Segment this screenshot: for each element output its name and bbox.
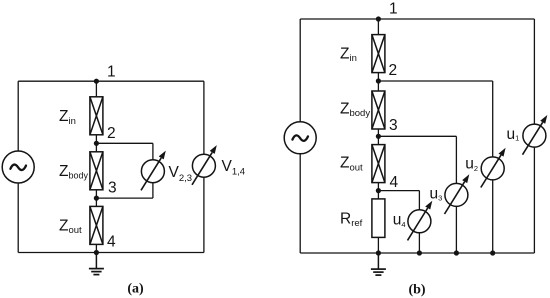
wire: node4 to u4 branch (b): [378, 190, 419, 192]
wire: node3 to u3 branch (b): [378, 135, 456, 137]
svg-text:u1: u1: [507, 126, 520, 143]
svg-text:1: 1: [389, 0, 398, 17]
svg-text:Zin: Zin: [340, 45, 357, 64]
wire: u2 branch lower vertical: [492, 180, 494, 253]
svg-text:u2: u2: [465, 156, 478, 173]
wire: node2 to V2,3 branch: [96, 142, 152, 144]
impedance Zbody (b): [372, 91, 385, 129]
junction dot: u3 branch on bottom wire: [454, 250, 459, 255]
svg-text:Zin: Zin: [59, 108, 76, 127]
wire: circuit (a) left wire lower segment: [17, 183, 19, 253]
voltmeter u1: [523, 115, 548, 155]
svg-text:Zout: Zout: [59, 217, 82, 236]
wire: circuit (b) top wire node1: [300, 18, 534, 20]
voltmeter V1,4: [192, 145, 217, 185]
svg-text:Zout: Zout: [340, 155, 363, 174]
junction dot: ground on bottom wire (b): [376, 250, 381, 255]
svg-text:4: 4: [390, 174, 399, 191]
node 1 (a) junction dot: [94, 79, 99, 84]
junction dot: u4 branch on bottom wire: [417, 250, 422, 255]
wire: circuit (b) left wire lower segment: [299, 154, 301, 253]
wire: node2 to u2 branch (b): [378, 80, 492, 82]
wire: Zin to Zbody through node2 (a): [95, 135, 97, 152]
wire: circuit (a) left wire upper segment: [17, 81, 19, 151]
wire: Zbody to Zout through node3 (a): [95, 190, 97, 207]
svg-text:1: 1: [107, 64, 116, 81]
impedance Zout (a): [90, 206, 103, 244]
svg-text:(a): (a): [127, 282, 144, 297]
svg-text:Zbody: Zbody: [340, 100, 370, 119]
svg-text:u3: u3: [430, 185, 443, 202]
ground (a): [89, 253, 104, 275]
wire: circuit (b) left wire upper segment: [299, 19, 301, 122]
svg-text:3: 3: [389, 117, 398, 134]
junction dot: u2 branch on bottom wire: [490, 250, 495, 255]
wire: Rref to bottom wire (b): [377, 237, 379, 253]
wire: node1 to Zin (b): [377, 19, 379, 35]
voltmeter u2: [481, 148, 506, 188]
AC source G1 (a): [2, 151, 34, 183]
svg-text:u4: u4: [393, 212, 406, 229]
wire: Zin to Zbody through node2 (b): [377, 73, 379, 91]
svg-text:(b): (b): [408, 283, 425, 298]
voltmeter u4: [408, 201, 433, 241]
svg-text:V1,4: V1,4: [222, 158, 246, 178]
wire: node1 to Zin (a): [95, 81, 97, 97]
svg-text:2: 2: [389, 62, 398, 79]
wire: V2,3 branch to node3: [96, 197, 152, 199]
node 1 (b) junction dot: [376, 16, 381, 21]
impedance Zin (b): [372, 35, 385, 73]
wire: u4 branch upper vertical: [418, 191, 420, 210]
wire: V2,3 branch lower vertical: [152, 183, 154, 198]
wire: circuit (b) bottom wire: [300, 252, 534, 254]
voltmeter u3: [445, 174, 470, 214]
wire: u4 branch lower vertical: [418, 233, 420, 253]
node 2 (a) junction dot: [94, 141, 99, 146]
node 3 (a) junction dot: [94, 196, 99, 201]
resistor Rref: [372, 199, 385, 238]
svg-text:Rref: Rref: [340, 210, 363, 229]
wire: V2,3 branch upper vertical: [152, 143, 154, 159]
wire: Zbody to Zout through node3 (b): [377, 129, 379, 145]
wire: Zout to bottom wire (a): [95, 244, 97, 252]
node 4 (a) junction dot: [94, 250, 99, 255]
svg-text:4: 4: [107, 234, 116, 251]
node 2 (b) junction dot: [376, 78, 381, 83]
node 3 (b) junction dot: [376, 134, 381, 139]
svg-text:Zbody: Zbody: [59, 163, 88, 181]
svg-text:3: 3: [108, 180, 117, 197]
wire: u1 branch upper vertical: [533, 19, 535, 124]
AC source G2 (b): [284, 122, 316, 154]
wire: u1 branch lower vertical: [533, 147, 535, 253]
svg-text:2: 2: [107, 125, 116, 142]
svg-text:V2,3: V2,3: [169, 164, 193, 184]
ground (b): [371, 253, 386, 275]
wire: circuit (a) top wire node1: [18, 80, 204, 82]
wire: circuit (a) right wire lower segment: [203, 177, 205, 252]
node 4 (b) junction dot: [376, 188, 381, 193]
wire: u3 branch lower vertical: [455, 206, 457, 253]
wire: u2 branch upper vertical: [492, 81, 494, 157]
impedance Zbody (a): [90, 152, 103, 190]
voltmeter V2,3: [141, 151, 166, 191]
wire: circuit (a) right wire upper segment: [203, 81, 205, 154]
wire: u3 branch upper vertical: [455, 136, 457, 183]
impedance Zout (b): [372, 145, 385, 183]
wire: Zout to Rref through node4 (b): [377, 183, 379, 199]
wire: circuit (a) bottom wire node4: [18, 252, 204, 254]
impedance Zin (a): [90, 97, 103, 135]
